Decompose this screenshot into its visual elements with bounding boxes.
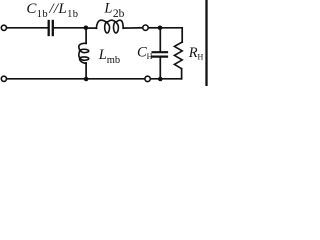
wire node A down to inductor Lmb [85,28,87,44]
capacitor CH plates [153,52,167,56]
svg-text:Lmb: Lmb [98,47,121,66]
resistor RH zigzag [174,42,182,69]
wire L2b to terminal T2 [123,27,142,29]
wire Lmb to bottom rail [85,63,87,79]
node C (junction dot bottom under CH) [158,77,163,82]
svg-text:RH: RH [188,45,204,61]
wire T2 to node B [148,27,160,29]
node B (junction dot top right) [158,26,163,31]
capacitor C1b plates [49,21,53,35]
inductor L2b coil [96,20,123,33]
wire CH to bottom rail [159,58,161,79]
svg-text:C1b//L1b: C1b//L1b [26,1,78,20]
terminal T1 (top left open circle) [1,25,6,30]
terminal T4 (bottom open circle near CH) [145,76,150,81]
svg-text:CH: CH [137,45,153,61]
inductor Lmb coil (vertical) [79,43,89,63]
terminal T3 (bottom left open circle) [1,76,6,81]
wire capacitor to node A [54,27,86,29]
border line right [205,0,207,86]
bottom rail wire left [7,78,145,80]
wire node B down to capacitor CH [159,28,161,51]
wire node B to resistor corner [160,28,182,42]
wire node A to inductor L2b [86,27,97,29]
node D (junction dot bottom under Lmb) [84,77,89,82]
terminal T2 (mid top open circle) [143,25,148,30]
bottom rail wire right [150,78,181,80]
resistor RH bottom lead [181,69,183,79]
wire top-left to capacitor [7,27,48,29]
node A (junction dot top) [84,26,89,31]
svg-text:L2b: L2b [103,0,124,19]
